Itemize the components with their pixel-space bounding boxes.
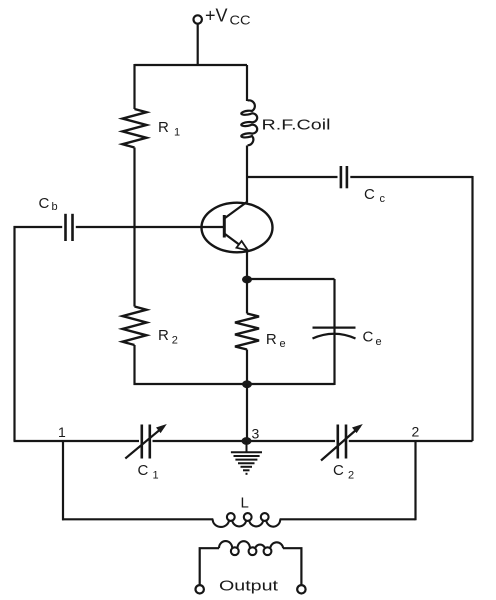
svg-text:1: 1 [58,424,66,440]
wire output left lead [200,548,219,585]
capacitor Cc [341,166,347,188]
wire bottom mid horizontal (R2 to Ce) [134,383,335,385]
wire left wall [13,226,15,441]
capacitor Cb [66,214,73,241]
wire Vcc stub [197,24,199,65]
svg-text:L: L [241,494,249,511]
label Cc [364,186,386,205]
capacitor C2 variable [321,424,363,461]
wire collector lead [246,146,248,203]
wire Re top lead [246,279,248,314]
svg-text:e: e [280,338,286,350]
svg-text:C: C [363,329,374,346]
wire base left segment [14,226,63,228]
wire R1 top lead [133,64,135,109]
wire R2 bottom lead [133,345,135,385]
svg-text:3: 3 [252,426,260,442]
svg-text:e: e [376,336,382,348]
label C1 [138,462,159,482]
junction dot node 3 [242,437,252,445]
wire top rail [135,64,248,66]
label +Vcc [205,6,251,28]
resistor R1 [123,109,147,148]
wire tank bottom right [280,518,416,520]
wire R1-R2 vertical (base bias node) [133,148,135,307]
terminal output right [297,585,305,593]
wire tank bottom left [62,518,213,520]
svg-text:R: R [266,331,277,348]
inductor RF coil [241,100,257,145]
wire right wall [471,176,473,441]
label Re [266,331,286,350]
resistor Re [235,314,259,350]
ground [231,441,262,474]
wire Re bottom lead [246,350,248,386]
wire Ce bottom lead [333,335,335,386]
svg-text:R: R [158,327,169,344]
wire base right segment [76,226,224,228]
wire node1 drop [62,441,64,520]
wire Ce top lead [333,279,335,334]
svg-text:CC: CC [230,12,251,27]
label Ce [363,329,382,348]
wire emitter lead [246,250,248,280]
svg-text:C: C [364,186,375,203]
svg-text:2: 2 [412,423,420,439]
svg-text:c: c [380,193,386,205]
wire node2 drop [414,441,416,520]
label R1 [158,119,180,139]
transistor Q1 [202,202,273,253]
inductor L [213,513,281,527]
resistor R2 [123,307,147,346]
label R2 [158,327,178,347]
svg-text:2: 2 [172,335,178,347]
wire Cc horizontal left part [247,176,338,178]
wire output right lead [283,548,301,585]
svg-text:+V: +V [205,6,228,26]
wire bottom rail [14,440,473,442]
label C2 [333,462,354,482]
label Cb [39,195,58,213]
capacitor C1 variable [125,424,167,459]
svg-text:2: 2 [348,470,354,482]
svg-text:Output: Output [219,578,279,595]
junction dot bottom node [242,380,252,388]
power +Vcc terminal [194,15,202,23]
inductor output coil [219,541,283,555]
wire Cc horizontal right part [350,176,472,178]
svg-text:C: C [333,462,344,479]
svg-text:b: b [52,201,58,213]
wire bottom node to rail [246,384,248,441]
svg-text:R: R [158,119,169,136]
wire emitter node to Ce [247,278,335,280]
wire collector branch top lead [246,65,248,101]
terminal output left [196,585,204,593]
svg-text:R.F.Coil: R.F.Coil [262,116,331,133]
capacitor Ce [313,328,356,339]
svg-text:C: C [39,195,50,212]
junction dot emitter node [242,276,252,284]
svg-text:C: C [138,462,149,479]
svg-text:1: 1 [153,470,159,482]
svg-text:1: 1 [174,127,180,139]
